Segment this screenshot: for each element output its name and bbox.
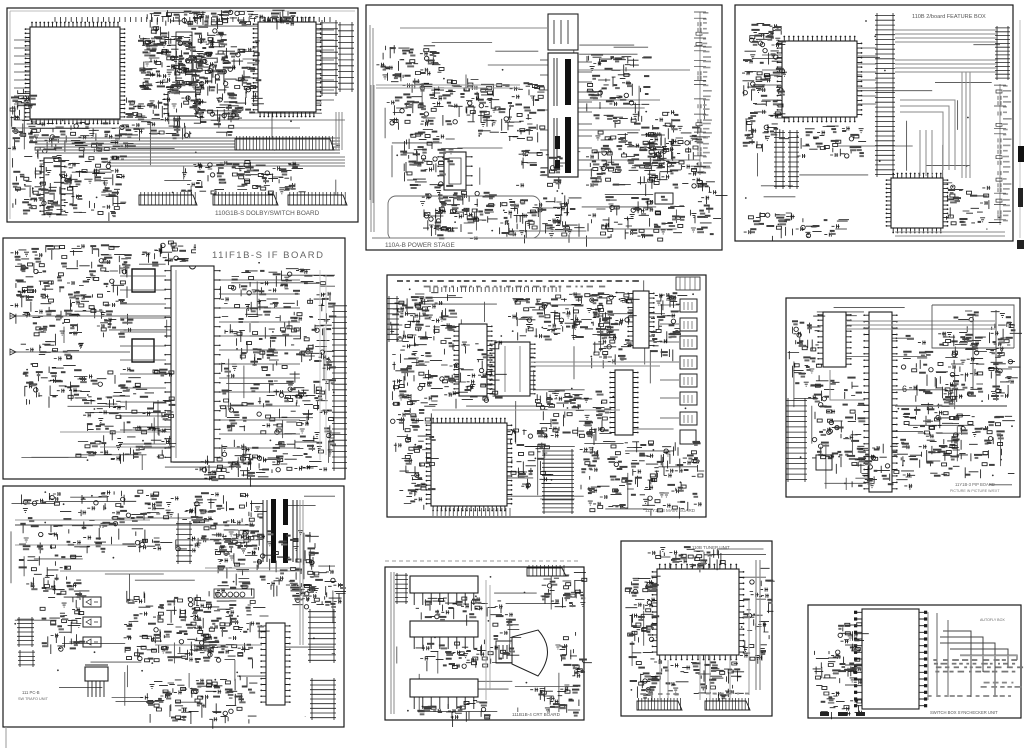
wires net panel6 [793, 307, 1012, 490]
text rows right [933, 659, 1023, 672]
ic U3 small DIP [163, 92, 200, 116]
bus right pair [300, 500, 303, 645]
bus group mid [895, 60, 998, 72]
ic U11 memory DIP [453, 324, 492, 396]
component cluster right [740, 568, 775, 664]
component cluster center [535, 391, 611, 445]
mark right edge blob [1018, 146, 1024, 162]
bus wires B2 [110, 157, 345, 166]
op-amp U1 DSP QFP [25, 22, 126, 125]
connector CN1 [235, 136, 334, 150]
ic U15 PIP ctrl DIP [817, 312, 851, 367]
component cluster left mid [743, 100, 789, 152]
component cluster secondary [587, 55, 652, 113]
wires net panel7 [11, 491, 335, 717]
component cluster bottom-mid [181, 161, 306, 195]
component cluster under U20 [416, 642, 488, 671]
bus heavy gray [960, 655, 1017, 657]
connector CN3 [213, 192, 278, 205]
regulator U18 with pins [85, 667, 108, 681]
wire vertical left of stairs [927, 612, 929, 700]
wire loop bottom-left [388, 196, 540, 238]
component cluster focus [555, 632, 592, 678]
bus wires top [846, 321, 995, 329]
component cluster mid right [188, 601, 269, 669]
svg-text:11IF1B-S IF BOARD: 11IF1B-S IF BOARD [212, 250, 324, 261]
component cluster bottom-left [12, 155, 127, 221]
box around diode array [176, 32, 192, 84]
transformer T1 primary box [548, 14, 578, 50]
component cluster left [625, 576, 660, 645]
component cluster left mid [21, 342, 85, 408]
ic U20 RGB amp [410, 621, 478, 649]
wire rail mid [60, 571, 300, 645]
connector J7b [18, 650, 35, 667]
text rows right lower [981, 682, 1022, 688]
wires net panel8 [397, 576, 578, 712]
connector CN2 [139, 192, 197, 205]
svg-text:111B1B-4 CRT BOARD: 111B1B-4 CRT BOARD [512, 712, 561, 717]
component cluster mid lower [76, 367, 176, 463]
component cluster below U7 [798, 126, 867, 158]
panel border sheet 110B FEATURE BOX [735, 5, 1013, 241]
connector J9 right bottom [310, 678, 336, 720]
component cluster left col [391, 350, 443, 430]
subcircuit boundary [932, 305, 1014, 348]
connector row of circles [214, 589, 254, 598]
component cluster left of U23 [838, 623, 869, 652]
ic U23 switch DIP [854, 609, 927, 709]
component cluster top edge [142, 241, 206, 267]
ic U17 vertical DIP [260, 623, 290, 705]
component cluster below U1 [31, 122, 136, 158]
wire long nets [15, 120, 345, 128]
connector J1 [320, 20, 338, 96]
bus wire top [400, 27, 548, 29]
bus to U8 [920, 130, 932, 176]
transformer T2 main SMPS [548, 53, 578, 177]
component cluster snubber [400, 130, 455, 190]
panel border sheet tuner unit [621, 541, 772, 716]
pin wires U2 right [316, 30, 334, 100]
flyback ladder [176, 521, 192, 564]
component cluster mid band [440, 341, 507, 409]
transformer T11 core bars [271, 499, 276, 563]
connector J8 right [308, 609, 336, 663]
component cluster left sparse [19, 555, 82, 593]
connector J10 left [395, 573, 408, 604]
text row top [397, 280, 639, 282]
wire secondary rails [578, 70, 700, 160]
svg-text:SWITCH BOX SYNCHECKER UNIT: SWITCH BOX SYNCHECKER UNIT [930, 710, 998, 715]
transformer T2 right pins [578, 62, 592, 170]
transformer T2 left pins [540, 60, 548, 168]
module M2 SAW filter [132, 339, 154, 362]
sheet edge shadow [1019, 20, 1021, 238]
component cluster primary side [470, 82, 545, 142]
connector left edge P5 [387, 296, 399, 342]
connector J2 center strip [875, 13, 895, 177]
component cluster right of U8 [947, 185, 1002, 226]
component cluster secondary2 [586, 110, 681, 188]
resistor array right A [945, 311, 987, 402]
bus wires B3 [336, 112, 342, 150]
component cluster bottom mid [501, 195, 582, 243]
wire long verticals [937, 613, 948, 697]
module M1 SAW filter [132, 269, 155, 292]
ic U4 audio DIP [39, 158, 65, 214]
bus group top [895, 30, 998, 42]
bus wire mid [895, 405, 1007, 407]
component cluster bottom mid [508, 428, 554, 490]
title 110A-B POWER STAGE [380, 240, 480, 249]
resistor pack RP2 [788, 130, 799, 189]
wires net panel9 [631, 549, 767, 694]
svg-text:110G1B-S DOLBY/SWITCH BOARD: 110G1B-S DOLBY/SWITCH BOARD [215, 210, 320, 217]
component cluster heat sink area [516, 150, 566, 189]
component cluster bottom-left [813, 646, 863, 719]
connector labels [640, 693, 678, 695]
component chain right [973, 310, 996, 395]
panel border sheet 11IF1B-S IF BOARD [3, 238, 345, 479]
svg-text:111Y1B-3 MAIN BOARD: 111Y1B-3 MAIN BOARD [645, 508, 696, 513]
bus right vertical2 [748, 600, 750, 695]
component cluster under U5 [420, 191, 497, 237]
component cluster left bottom [394, 420, 439, 509]
bus wire mains [376, 85, 520, 88]
bus L-bend [900, 100, 955, 170]
component cluster bottom left [629, 653, 660, 703]
component cluster left edge [788, 316, 826, 387]
component cluster top-left [742, 24, 787, 101]
transformer T10 [680, 430, 696, 444]
pin wires U7 to J2 [858, 48, 876, 104]
ic U19 RGB amp [410, 576, 478, 605]
component cluster bottom-left [744, 212, 795, 241]
pin wires left of U7 [762, 55, 781, 100]
component cluster bottom mid [796, 218, 849, 237]
component cluster line filter [387, 78, 494, 129]
title 110G1B-S [210, 207, 350, 217]
connector J7a [17, 617, 34, 647]
component cluster output filters [641, 125, 708, 196]
bus bottom [895, 232, 1005, 236]
wires net panel2 [385, 43, 710, 236]
panel border sheet CRT board [385, 567, 584, 720]
wires net panel4 [21, 261, 335, 470]
component cluster far right mid [291, 565, 346, 609]
svg-text:111 PC-B: 111 PC-B [22, 690, 40, 695]
ic U8 video QFP [886, 173, 949, 234]
ic U2 switch QFP [253, 17, 322, 118]
panel border sheet 110A-B POWER STAGE [366, 5, 722, 250]
svg-text:AUTOFLY BOX: AUTOFLY BOX [980, 618, 1005, 622]
component cluster AC input [376, 45, 444, 81]
bus center [432, 409, 620, 411]
bus vertical right [962, 72, 970, 178]
connector J3 right strip [995, 26, 1010, 80]
component cluster top-left [390, 293, 457, 349]
wire heavy rails top [15, 524, 255, 526]
wires net panel3 [745, 20, 1000, 230]
component cluster bottom right [580, 441, 705, 519]
component cluster bottom band [429, 205, 606, 247]
ic U9 IF demod DIP [164, 266, 220, 462]
wire bottom long [60, 432, 170, 447]
svg-text:110B TUNER UNIT: 110B TUNER UNIT [692, 545, 730, 550]
ic U6 regulator [655, 193, 673, 204]
sheet edge spur bottom-left [5, 727, 7, 748]
svg-text:110B 2/board FEATURE BOX: 110B 2/board FEATURE BOX [912, 14, 986, 20]
component cluster under U21 [417, 700, 490, 727]
diode bridge boxes [83, 597, 101, 607]
component cluster bottom mid [654, 660, 744, 701]
ic U13 reset DIP [627, 291, 654, 348]
wire input left [10, 316, 170, 352]
pin wires U9 right [219, 280, 300, 448]
resistor array right B [986, 312, 1022, 401]
component cluster mid top [508, 292, 619, 340]
bus right vertical [756, 560, 760, 690]
ic U5 PWM controller [437, 152, 472, 190]
component cluster mid left [808, 375, 869, 474]
component cluster bottom mid [852, 443, 916, 488]
component cluster mid center [124, 591, 220, 663]
connector J6 left [786, 398, 807, 482]
component cluster U2 left [222, 41, 264, 120]
staircase wires [940, 631, 1017, 697]
bus left bend [830, 370, 865, 400]
wire hv rail [175, 540, 300, 568]
bus lines mid [530, 362, 660, 366]
component cluster bottom center [140, 676, 257, 729]
pin wires U9 left [120, 276, 166, 444]
connector CN9 top right [676, 277, 700, 290]
wires net panel5 [409, 280, 697, 509]
svg-text:11Y1B-3 PIP BOARD: 11Y1B-3 PIP BOARD [955, 482, 995, 487]
wire left pins [845, 625, 857, 685]
ic U22 tuner QFP [652, 564, 745, 661]
diode array D1-D12 [138, 27, 237, 96]
ic U21 RGB amp [410, 679, 478, 709]
component cluster bottom [195, 455, 297, 487]
connector CN5 column [694, 12, 712, 175]
pin header row top [55, 17, 330, 22]
connector CN4 [288, 192, 347, 205]
text row top2 [424, 286, 606, 288]
wires net panel1 [24, 26, 340, 205]
component cluster right top [650, 292, 687, 361]
connector J5 bottom [542, 449, 574, 514]
svg-text:SW TRAFO UNIT: SW TRAFO UNIT [18, 697, 49, 701]
component cluster bottom right [601, 196, 686, 241]
connector CN7 [637, 698, 682, 710]
svg-text:6: 6 [902, 384, 907, 394]
connector CN8 [705, 698, 750, 710]
antenna arrow [10, 313, 16, 355]
wire drop lines [660, 655, 730, 700]
component cluster center [900, 332, 968, 468]
component cluster right bottom [530, 685, 580, 717]
connector CN6 top right [527, 565, 566, 576]
transformer T2 core bars [565, 59, 571, 105]
wire verticals mid [486, 580, 490, 700]
panel border sheet 110G1B-S DOLBY/SWITCH BOARD [7, 8, 358, 222]
panel border sheet power unit [3, 486, 344, 727]
diode array overlay [140, 30, 225, 97]
connector J1b [338, 22, 354, 92]
text row bottom edge [927, 695, 1011, 697]
pin row under U10 [433, 508, 510, 516]
pin wires U1 left [14, 40, 30, 104]
bus wires left [371, 85, 374, 232]
CRT tube symbol [496, 630, 548, 676]
bus wires B1 [35, 138, 340, 153]
component cluster mid [121, 96, 241, 141]
wire trunk vertical [370, 25, 373, 203]
component cluster left mid [40, 580, 89, 654]
dark pads bottom edge [820, 712, 829, 716]
connector labels2 [706, 693, 749, 695]
component cluster under U19 [416, 597, 488, 626]
component cluster right of U9 [221, 268, 337, 372]
svg-text:PICTURE IN PICTURE W/EXT: PICTURE IN PICTURE W/EXT [950, 489, 1000, 493]
wire right verticals [320, 270, 326, 460]
ic U10 micom QFP [426, 418, 513, 512]
transformer column T3-T9 [680, 299, 697, 312]
pin header top edge [430, 287, 560, 292]
pin wires transformer col [660, 305, 679, 418]
component cluster bottom right [926, 445, 1014, 478]
component cluster secondary right [212, 530, 319, 597]
component cluster top mid [171, 492, 267, 555]
ic U16 PIP main DIP [863, 312, 897, 492]
box bottom-left [816, 455, 832, 470]
svg-text:110A-B POWER STAGE: 110A-B POWER STAGE [385, 242, 455, 249]
component cluster tuner input [10, 244, 133, 345]
panel border sheet PIP board [786, 298, 1020, 497]
component cluster right lower [221, 371, 341, 479]
dashed bus above [385, 560, 578, 562]
wire bottom rail [372, 237, 610, 239]
transformer T11 windings [263, 500, 297, 562]
connector J4 right edge [332, 303, 347, 471]
component cluster right edge lower [690, 180, 727, 235]
component cluster right top [541, 573, 587, 608]
ic U7 feature QFP [777, 36, 863, 123]
component cluster right mid [942, 415, 1015, 449]
component cluster top-left transistors [19, 490, 174, 553]
component cluster U13 area [591, 293, 640, 369]
resistor pack RP1 [774, 130, 785, 189]
component cluster top-left [8, 89, 40, 150]
component cluster mid [484, 601, 521, 664]
component cluster top [648, 546, 728, 572]
edge components right [994, 84, 1012, 225]
resistor network RN1 [147, 10, 296, 29]
wire top rails [15, 520, 150, 545]
panel border sheet main board [387, 275, 706, 517]
ic U14 driver DIP [609, 370, 638, 435]
title 11IF1B-S IF BOARD [196, 244, 342, 262]
ic U12 eeprom DIP [489, 342, 535, 396]
bus left pair [391, 572, 394, 714]
panel border sheet synchecker [808, 605, 1021, 718]
